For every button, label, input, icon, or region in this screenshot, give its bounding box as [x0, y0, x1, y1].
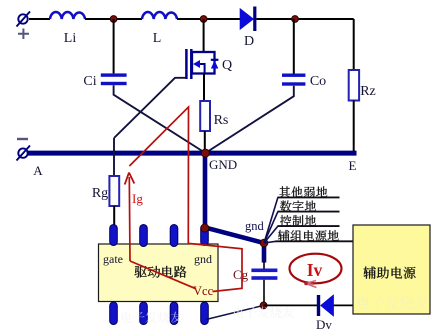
svg-text:Co: Co	[310, 74, 326, 89]
wire to other weak grounds	[264, 197, 278, 243]
node GND junction	[201, 149, 209, 157]
wire gate lead	[114, 78, 186, 138]
output terminal -	[17, 146, 31, 161]
resistor Rs	[200, 101, 210, 131]
svg-text:Rz: Rz	[360, 84, 376, 99]
svg-text:gnd: gnd	[245, 219, 265, 233]
watermark aux box	[358, 296, 428, 309]
svg-text:Iv: Iv	[307, 260, 323, 280]
capacitor Co	[282, 74, 305, 86]
node bottom junction	[260, 302, 267, 309]
svg-text:Rs: Rs	[214, 113, 229, 128]
wire D to right corner	[256, 18, 353, 20]
wire right vertical to Rz	[353, 19, 355, 70]
svg-text:gnd: gnd	[194, 252, 212, 266]
wire Rs to GND	[204, 131, 206, 151]
label 控制地	[280, 215, 316, 226]
pin gate top	[110, 225, 118, 246]
watermark bottom center	[234, 307, 294, 318]
wire to Ci	[113, 19, 115, 73]
svg-text:Li: Li	[64, 31, 77, 46]
drive circuit box	[99, 244, 219, 302]
wire Co drop	[293, 19, 295, 74]
wire top rail left	[29, 18, 50, 20]
current loop Iv ellipse	[290, 254, 342, 284]
wire Cg bottom to bottom node	[263, 280, 265, 306]
wire Co bottom to GND node (diagonal)	[205, 86, 293, 153]
svg-text:Vcc: Vcc	[193, 284, 214, 298]
input terminal +	[17, 12, 31, 27]
wire L to diode D	[177, 18, 240, 20]
diode Dv	[317, 295, 334, 317]
wire bottom node to Dv	[264, 304, 317, 306]
wire to aux supply ground	[264, 241, 276, 243]
svg-text:GND: GND	[209, 157, 237, 172]
arrow Iv head	[306, 281, 317, 288]
pin bottom 3	[170, 302, 178, 325]
minus sign	[17, 138, 28, 140]
pin bottom 2	[140, 302, 148, 325]
watermark drive box	[122, 312, 182, 323]
node gnd star point	[260, 239, 268, 247]
diode D	[240, 7, 256, 32]
pin top 3	[170, 225, 178, 247]
node junction top2	[200, 16, 207, 23]
wire to digital ground	[264, 212, 278, 243]
pin bottom 1	[110, 302, 118, 325]
arrow Ig head	[125, 173, 135, 185]
wire mosfet source to Rs	[203, 74, 205, 102]
svg-text:Ci: Ci	[83, 74, 96, 89]
transistor Q (mosfet with body diode)	[186, 49, 218, 79]
svg-text:Q: Q	[222, 58, 232, 73]
label 数字地	[280, 200, 316, 212]
resistor Rz	[349, 70, 359, 101]
capacitor Ci	[101, 73, 127, 85]
svg-text:gate: gate	[103, 252, 123, 266]
label 辅组电源地	[278, 230, 339, 241]
pin bottom 4	[201, 302, 209, 325]
svg-text:Dv: Dv	[316, 317, 332, 331]
wire Rz to bus	[353, 101, 355, 152]
svg-text:Ig: Ig	[132, 191, 143, 206]
label 驱动电路	[135, 266, 187, 278]
plus sign	[18, 29, 29, 40]
current loop Ig path	[129, 107, 242, 292]
ground bus (thick)	[28, 151, 357, 156]
svg-text:D: D	[244, 34, 254, 49]
label 辅助电源	[364, 267, 416, 279]
svg-text:E: E	[349, 158, 357, 173]
inductor Li	[50, 12, 85, 19]
resistor Rg	[109, 176, 119, 206]
node junction top3	[292, 16, 299, 23]
aux power box	[353, 225, 430, 314]
pin gnd top 4	[201, 225, 209, 246]
thick ground wire GND to gnd star	[205, 155, 264, 263]
node junction drive gnd	[201, 224, 209, 232]
label 其他弱地	[279, 186, 327, 197]
svg-text:Rg: Rg	[92, 186, 108, 201]
wire Rg to gate pin	[113, 206, 115, 228]
wire Ci bottom to GND node (diagonal)	[114, 85, 206, 153]
pin top 2	[140, 225, 148, 247]
wire pin4 to bottom node	[206, 305, 264, 319]
wire Li to L	[85, 18, 142, 20]
node junction top1	[110, 16, 117, 23]
svg-text:L: L	[153, 31, 162, 46]
wire gnd star to Cg	[263, 262, 265, 269]
inductor L	[142, 12, 177, 19]
capacitor Cg	[251, 269, 277, 280]
wire to control ground	[264, 226, 278, 243]
svg-text:A: A	[33, 163, 43, 178]
wire Dv to aux box	[334, 304, 353, 306]
wire drain top to mosfet	[203, 19, 205, 52]
wire gate net crossing bus to Rg	[113, 138, 115, 176]
svg-text:Cg: Cg	[233, 267, 249, 282]
